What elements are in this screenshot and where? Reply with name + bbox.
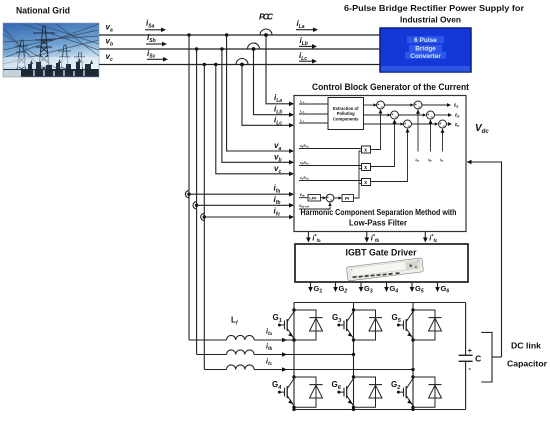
PI box (342, 195, 354, 202)
wire inductor b feed (197, 354, 227, 356)
wire inverter leg 2 (353, 303, 355, 410)
svg-text:IGBT Gate Driver: IGBT Gate Driver (346, 248, 417, 258)
svg-text:ifc: ifc (440, 158, 444, 163)
svg-text:Control Block Generator of the: Control Block Generator of the Current (312, 82, 469, 92)
wire gate signal G3 (360, 282, 362, 290)
wire phase c into leg 3 (254, 369, 413, 371)
wire iLc sense to control block (242, 65, 293, 126)
svg-text:DC link: DC link (511, 342, 542, 351)
transistor Q (IGBT G3) with diode (337, 308, 382, 341)
svg-text:C: C (475, 354, 481, 364)
wire extraction out b (364, 114, 390, 116)
svg-text:Components: Components (333, 116, 359, 121)
wire gate signal G1 (310, 282, 312, 290)
wire vb/Vm into multiplier (299, 165, 362, 167)
wire multiplier c to summing c (371, 129, 408, 182)
wire iLa sense to control block (266, 35, 293, 104)
wire phase-c down to filter inductor (203, 65, 205, 370)
current sensor iLa at PCC (260, 29, 272, 35)
IGBT gate driver box (295, 244, 468, 282)
wire vc/Vm into multiplier (299, 180, 362, 182)
wire va sense to control block (227, 35, 293, 151)
summing junction row1 c (404, 120, 412, 128)
wire extraction out a (364, 104, 376, 106)
svg-text:x: x (364, 147, 367, 153)
extraction of polluting components box (328, 98, 364, 130)
node leg 1 bottom rail (292, 408, 295, 411)
comparator a (414, 101, 422, 109)
wire PI output riser to multipliers (354, 151, 362, 198)
wire DC right rail upper (465, 303, 467, 356)
wire to comparator c (412, 123, 438, 125)
svg-text:ifb: ifb (428, 158, 432, 163)
wire summing to PI (334, 197, 341, 199)
wire inverter leg 3 (412, 303, 414, 410)
wire inverter leg 1 (293, 303, 295, 410)
wire iLb sense to control block (254, 49, 294, 115)
summing junction row1 b (391, 111, 399, 119)
wire ifb sense to control block (197, 204, 293, 206)
wire phase-a down to filter inductor (188, 35, 190, 340)
svg-text:x: x (364, 180, 367, 186)
node vb tap (220, 47, 223, 50)
svg-text:Capacitor: Capacitor (507, 360, 547, 369)
wire out epsilon a (422, 104, 447, 106)
svg-text:6 Pulse: 6 Pulse (414, 37, 437, 44)
wire phase b into leg 2 (254, 354, 353, 356)
node phase c (411, 368, 414, 371)
wire iLa into extraction (299, 103, 328, 105)
current sensor ifb (193, 202, 197, 209)
wire Vdc to LPF (299, 197, 308, 199)
wire phase a (va) (99, 34, 380, 36)
wire gate signal G4 (386, 282, 388, 290)
current sensor iLb at PCC (248, 43, 260, 49)
wire reference current i*fa to driver (307, 232, 309, 241)
wire phase a into leg 1 (254, 339, 294, 341)
gate driver PCB photo (346, 258, 423, 281)
wire phase b (vb) (99, 48, 380, 50)
wire vc sense to control block (216, 65, 293, 174)
transistor Q (IGBT G2) with diode (397, 375, 442, 409)
wire vb sense to control block (222, 49, 293, 162)
node phase-a to filter (187, 33, 190, 36)
wire LPF to summing (321, 197, 326, 199)
wire bracket to Vdc sense (492, 356, 502, 358)
wire iLc into extraction (299, 122, 328, 124)
national grid photo (3, 23, 99, 77)
comparator b (427, 111, 435, 119)
svg-text:vb/Vm: vb/Vm (300, 161, 309, 166)
svg-text:PCC: PCC (259, 12, 274, 22)
svg-text:Bridge: Bridge (415, 46, 436, 53)
summing junction Vdc (326, 194, 334, 202)
wire va/Vm into multiplier (299, 148, 362, 150)
comparator c (439, 120, 447, 128)
control block outline (294, 96, 466, 232)
svg-text:-: - (468, 364, 471, 373)
svg-text:Low-Pass Filter: Low-Pass Filter (349, 219, 407, 228)
node phase-c to filter (203, 63, 206, 66)
wire out epsilon c (447, 123, 449, 125)
multiplier box a (362, 146, 371, 153)
svg-text:ifa: ifa (416, 158, 420, 163)
svg-text:vc/Vm: vc/Vm (300, 176, 309, 181)
wire ifc sense to control block (204, 216, 293, 218)
node vc tap (214, 63, 217, 66)
inductor Lf phase c (227, 365, 255, 370)
current sensor ifc (201, 213, 205, 220)
LPF box (308, 195, 321, 202)
transistor Q (IGBT G4) with diode (278, 375, 323, 409)
wire Vdc-ref into summing (299, 203, 330, 210)
wire reference current i*fc to driver (424, 232, 426, 241)
wire phase-b down to filter inductor (196, 49, 198, 355)
summing junction row1 a (377, 101, 385, 109)
inductor Lf phase a (227, 335, 255, 340)
wire ifa feedback into comparator (417, 110, 419, 152)
svg-text:6-Pulse Bridge Rectifier Power: 6-Pulse Bridge Rectifier Power Supply fo… (344, 3, 525, 13)
wire phase c (vc) (99, 64, 380, 66)
capacitor C (DC link) (459, 348, 482, 373)
wire inductor a feed (189, 339, 227, 341)
node leg 2 bottom rail (352, 408, 355, 411)
multiplier box c (362, 179, 371, 186)
wire ifa sense to control block (189, 193, 293, 195)
transistor Q (IGBT G1) with diode (278, 308, 323, 341)
wire to comparator a (385, 104, 414, 106)
multiplier box b (362, 164, 371, 171)
inductor Lf phase b (227, 350, 255, 355)
wire to comparator b (399, 114, 426, 116)
rectifier block (6 pulse bridge converter) (380, 28, 471, 72)
wire out epsilon b (435, 114, 449, 116)
svg-text:National Grid: National Grid (16, 6, 70, 17)
wire gate signal G2 (335, 282, 337, 290)
wire ifc feedback into comparator (442, 129, 444, 152)
current sensor iLc at PCC (236, 59, 248, 65)
svg-text:PI: PI (345, 196, 349, 201)
svg-text:Converter: Converter (410, 53, 441, 60)
wire multiplier b to summing b (371, 120, 395, 167)
wire gate signal G6 (437, 282, 439, 290)
wire iLb into extraction (299, 113, 328, 115)
wire DC+ top rail (294, 302, 466, 304)
current sensor ifa (185, 191, 189, 198)
wire gate signal G5 (411, 282, 413, 290)
node phase b (352, 353, 355, 356)
svg-text:x: x (364, 165, 367, 171)
svg-text:Vdc: Vdc (300, 193, 306, 198)
transistor Q (IGBT G5) with diode (397, 308, 442, 341)
svg-text:Industrial Oven: Industrial Oven (400, 15, 461, 25)
wire extraction out c (364, 123, 403, 125)
svg-text:va/Vm: va/Vm (300, 144, 309, 149)
wire DC- bottom rail (294, 409, 466, 411)
bracket DC link measurement (481, 332, 492, 382)
wire multiplier a to summing a (371, 110, 381, 150)
transistor Q (IGBT G6) with diode (337, 375, 382, 409)
wire Vdc sense from capacitor (468, 162, 502, 357)
wire reference current i*fb to driver (366, 232, 368, 241)
wire DC right rail lower (465, 361, 467, 409)
node phase-b to filter (195, 47, 198, 50)
node va tap (225, 33, 228, 36)
svg-text:LPF: LPF (309, 196, 317, 201)
wire inductor c feed (204, 369, 226, 371)
node phase a (292, 338, 295, 341)
wire ifb feedback into comparator (430, 120, 432, 152)
node leg 3 bottom rail (411, 408, 414, 411)
svg-text:+: + (468, 348, 472, 355)
